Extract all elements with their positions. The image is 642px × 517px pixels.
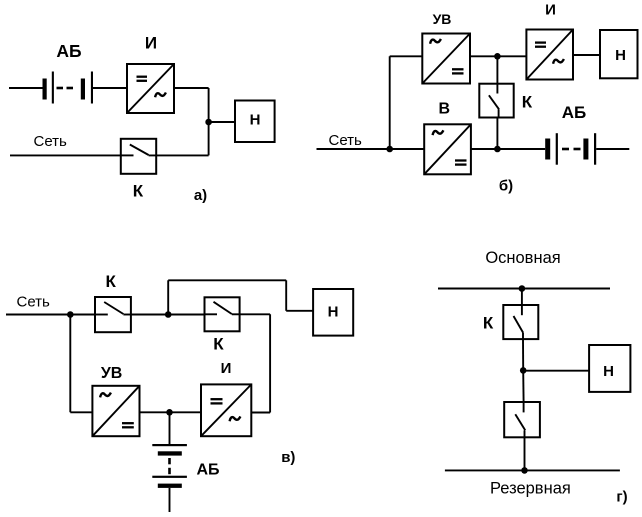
svg-text:в): в) — [281, 449, 295, 466]
svg-text:К: К — [106, 272, 117, 291]
svg-text:АБ: АБ — [196, 461, 219, 478]
svg-text:УВ: УВ — [101, 365, 123, 382]
svg-text:Резервная: Резервная — [490, 480, 571, 498]
svg-text:Сеть: Сеть — [34, 133, 68, 150]
svg-text:Сеть: Сеть — [17, 293, 51, 310]
svg-text:АБ: АБ — [562, 103, 587, 122]
svg-text:Н: Н — [250, 111, 261, 128]
svg-text:Н: Н — [603, 363, 614, 380]
svg-text:К: К — [522, 93, 533, 112]
svg-text:УВ: УВ — [433, 11, 452, 27]
svg-text:К: К — [133, 182, 144, 201]
svg-text:Н: Н — [615, 47, 626, 64]
svg-text:К: К — [213, 335, 224, 354]
svg-text:Сеть: Сеть — [329, 132, 363, 149]
svg-text:И: И — [221, 360, 232, 377]
svg-text:АБ: АБ — [56, 41, 81, 61]
svg-text:г): г) — [616, 489, 627, 506]
svg-text:К: К — [483, 313, 494, 332]
svg-text:Н: Н — [328, 303, 339, 320]
svg-text:Основная: Основная — [485, 249, 560, 267]
svg-text:б): б) — [499, 178, 513, 195]
svg-text:В: В — [439, 101, 451, 118]
svg-text:И: И — [545, 1, 556, 18]
svg-text:И: И — [145, 34, 157, 53]
svg-text:а): а) — [194, 187, 207, 204]
